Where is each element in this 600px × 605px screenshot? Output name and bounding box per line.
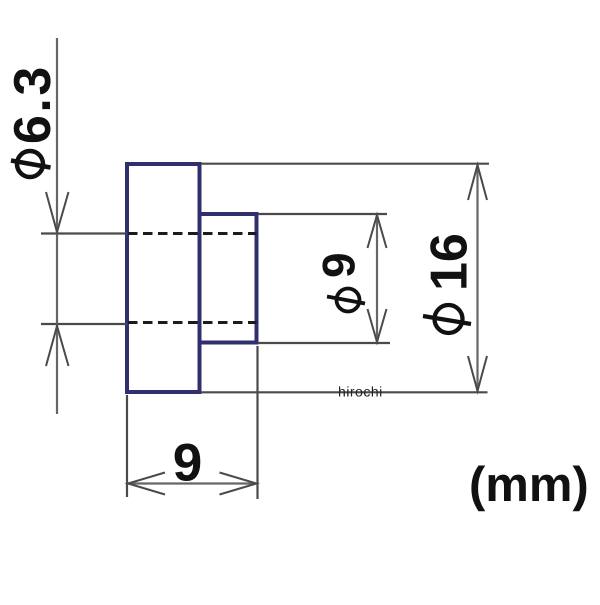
dim line phi9 vertical <box>376 214 378 343</box>
dim line 9 horizontal <box>127 482 258 484</box>
arrow phi6.3 up at hole bottom <box>46 326 69 366</box>
ext: boss top to phi9 <box>258 213 387 215</box>
part outline: boss rectangle <box>200 214 257 343</box>
phi symbol of 6.3 <box>17 151 43 177</box>
unit label (mm) <box>471 466 586 512</box>
arrow 9 left <box>128 473 165 495</box>
arrow phi16 up <box>468 165 487 200</box>
ext: hole top to phi6.3 <box>41 232 127 234</box>
extension lines (thin) <box>41 164 489 499</box>
ext: 9-dim left vertical <box>126 395 128 497</box>
arrow phi6.3 down at hole top <box>46 192 69 232</box>
ext: flange bottom to phi16 <box>201 391 488 393</box>
hidden hole line bottom (dashed) <box>128 321 257 324</box>
ext: hole bottom to phi6.3 <box>41 323 127 325</box>
part outline: flange rectangle (side view) <box>127 164 200 392</box>
label phi16 <box>423 235 471 333</box>
label 9 (length) <box>175 444 201 482</box>
phi symbol of 16 <box>435 305 463 333</box>
dimension lines <box>57 38 478 484</box>
arrow phi9 down <box>368 309 387 342</box>
dim line phi6.3 vertical <box>56 38 58 414</box>
label phi9 <box>322 254 365 311</box>
phi symbol of 9 <box>337 289 360 312</box>
dim line phi16 vertical <box>476 164 478 392</box>
ext: flange top to phi16 <box>201 163 489 165</box>
hidden hole line top (dashed) <box>128 232 257 235</box>
arrow 9 right <box>220 473 257 495</box>
ext: boss bottom to phi9 <box>258 342 390 344</box>
arrow phi16 down <box>468 356 487 391</box>
label phi6.3 <box>11 69 51 177</box>
ext: 9-dim right vertical <box>256 346 258 499</box>
watermark hirochi <box>339 386 381 396</box>
arrowheads <box>46 165 487 495</box>
arrow phi9 up <box>368 215 387 248</box>
